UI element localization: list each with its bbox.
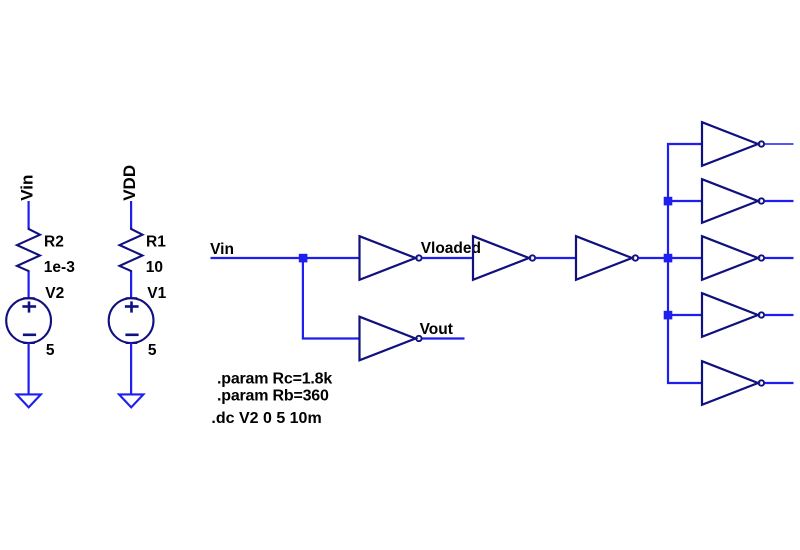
wire [765, 257, 794, 259]
wire [28, 272, 30, 298]
inverter U8 [702, 293, 764, 337]
wire [130, 272, 132, 298]
svg-text:5: 5 [46, 342, 55, 359]
wire [130, 343, 132, 394]
resistor R1 [120, 228, 143, 273]
wire [536, 257, 577, 259]
inverter U2 [473, 236, 535, 280]
ground [17, 394, 41, 407]
wire [130, 201, 132, 229]
resistor R2 [17, 228, 40, 273]
wire [422, 337, 465, 339]
inverter U1 [360, 236, 422, 280]
svg-text:1e-3: 1e-3 [44, 259, 75, 276]
svg-text:V1: V1 [147, 285, 166, 302]
wire [668, 257, 702, 259]
junction node [664, 197, 673, 206]
svg-text:R1: R1 [146, 233, 166, 250]
junction node [664, 311, 673, 320]
inverter U3 [576, 236, 638, 280]
wire [765, 314, 794, 316]
wire [765, 382, 794, 384]
svg-text:10: 10 [146, 259, 163, 276]
voltage source V2 [6, 298, 51, 343]
svg-text:.param Rb=360: .param Rb=360 [217, 388, 329, 405]
wire [668, 314, 702, 316]
svg-text:.param Rc=1.8k: .param Rc=1.8k [217, 371, 332, 388]
wire [639, 257, 669, 259]
svg-text:V2: V2 [45, 285, 64, 302]
svg-text:VDD: VDD [120, 165, 139, 201]
inverter U5 [702, 122, 764, 166]
junction node [664, 254, 673, 263]
wire [303, 258, 360, 339]
inverter U4 [360, 317, 422, 361]
svg-text:R2: R2 [44, 233, 64, 250]
svg-text:Vout: Vout [420, 321, 453, 338]
junction node [299, 254, 308, 263]
wire [28, 343, 30, 394]
ground [119, 394, 143, 407]
inverter U6 [702, 179, 764, 223]
wire [422, 257, 473, 259]
wire [668, 200, 702, 202]
wire [765, 143, 794, 145]
inverter U7 [702, 236, 764, 280]
voltage source V1 [109, 298, 154, 343]
svg-text:Vin: Vin [18, 175, 37, 201]
wire [211, 257, 360, 259]
svg-text:Vin: Vin [210, 241, 234, 258]
svg-text:.dc V2 0 5 10m: .dc V2 0 5 10m [211, 410, 321, 427]
svg-text:5: 5 [148, 342, 157, 359]
wire (vertical bus with elbows) [668, 144, 702, 383]
wire [765, 200, 794, 202]
wire [28, 201, 30, 229]
inverter U9 [702, 361, 764, 405]
